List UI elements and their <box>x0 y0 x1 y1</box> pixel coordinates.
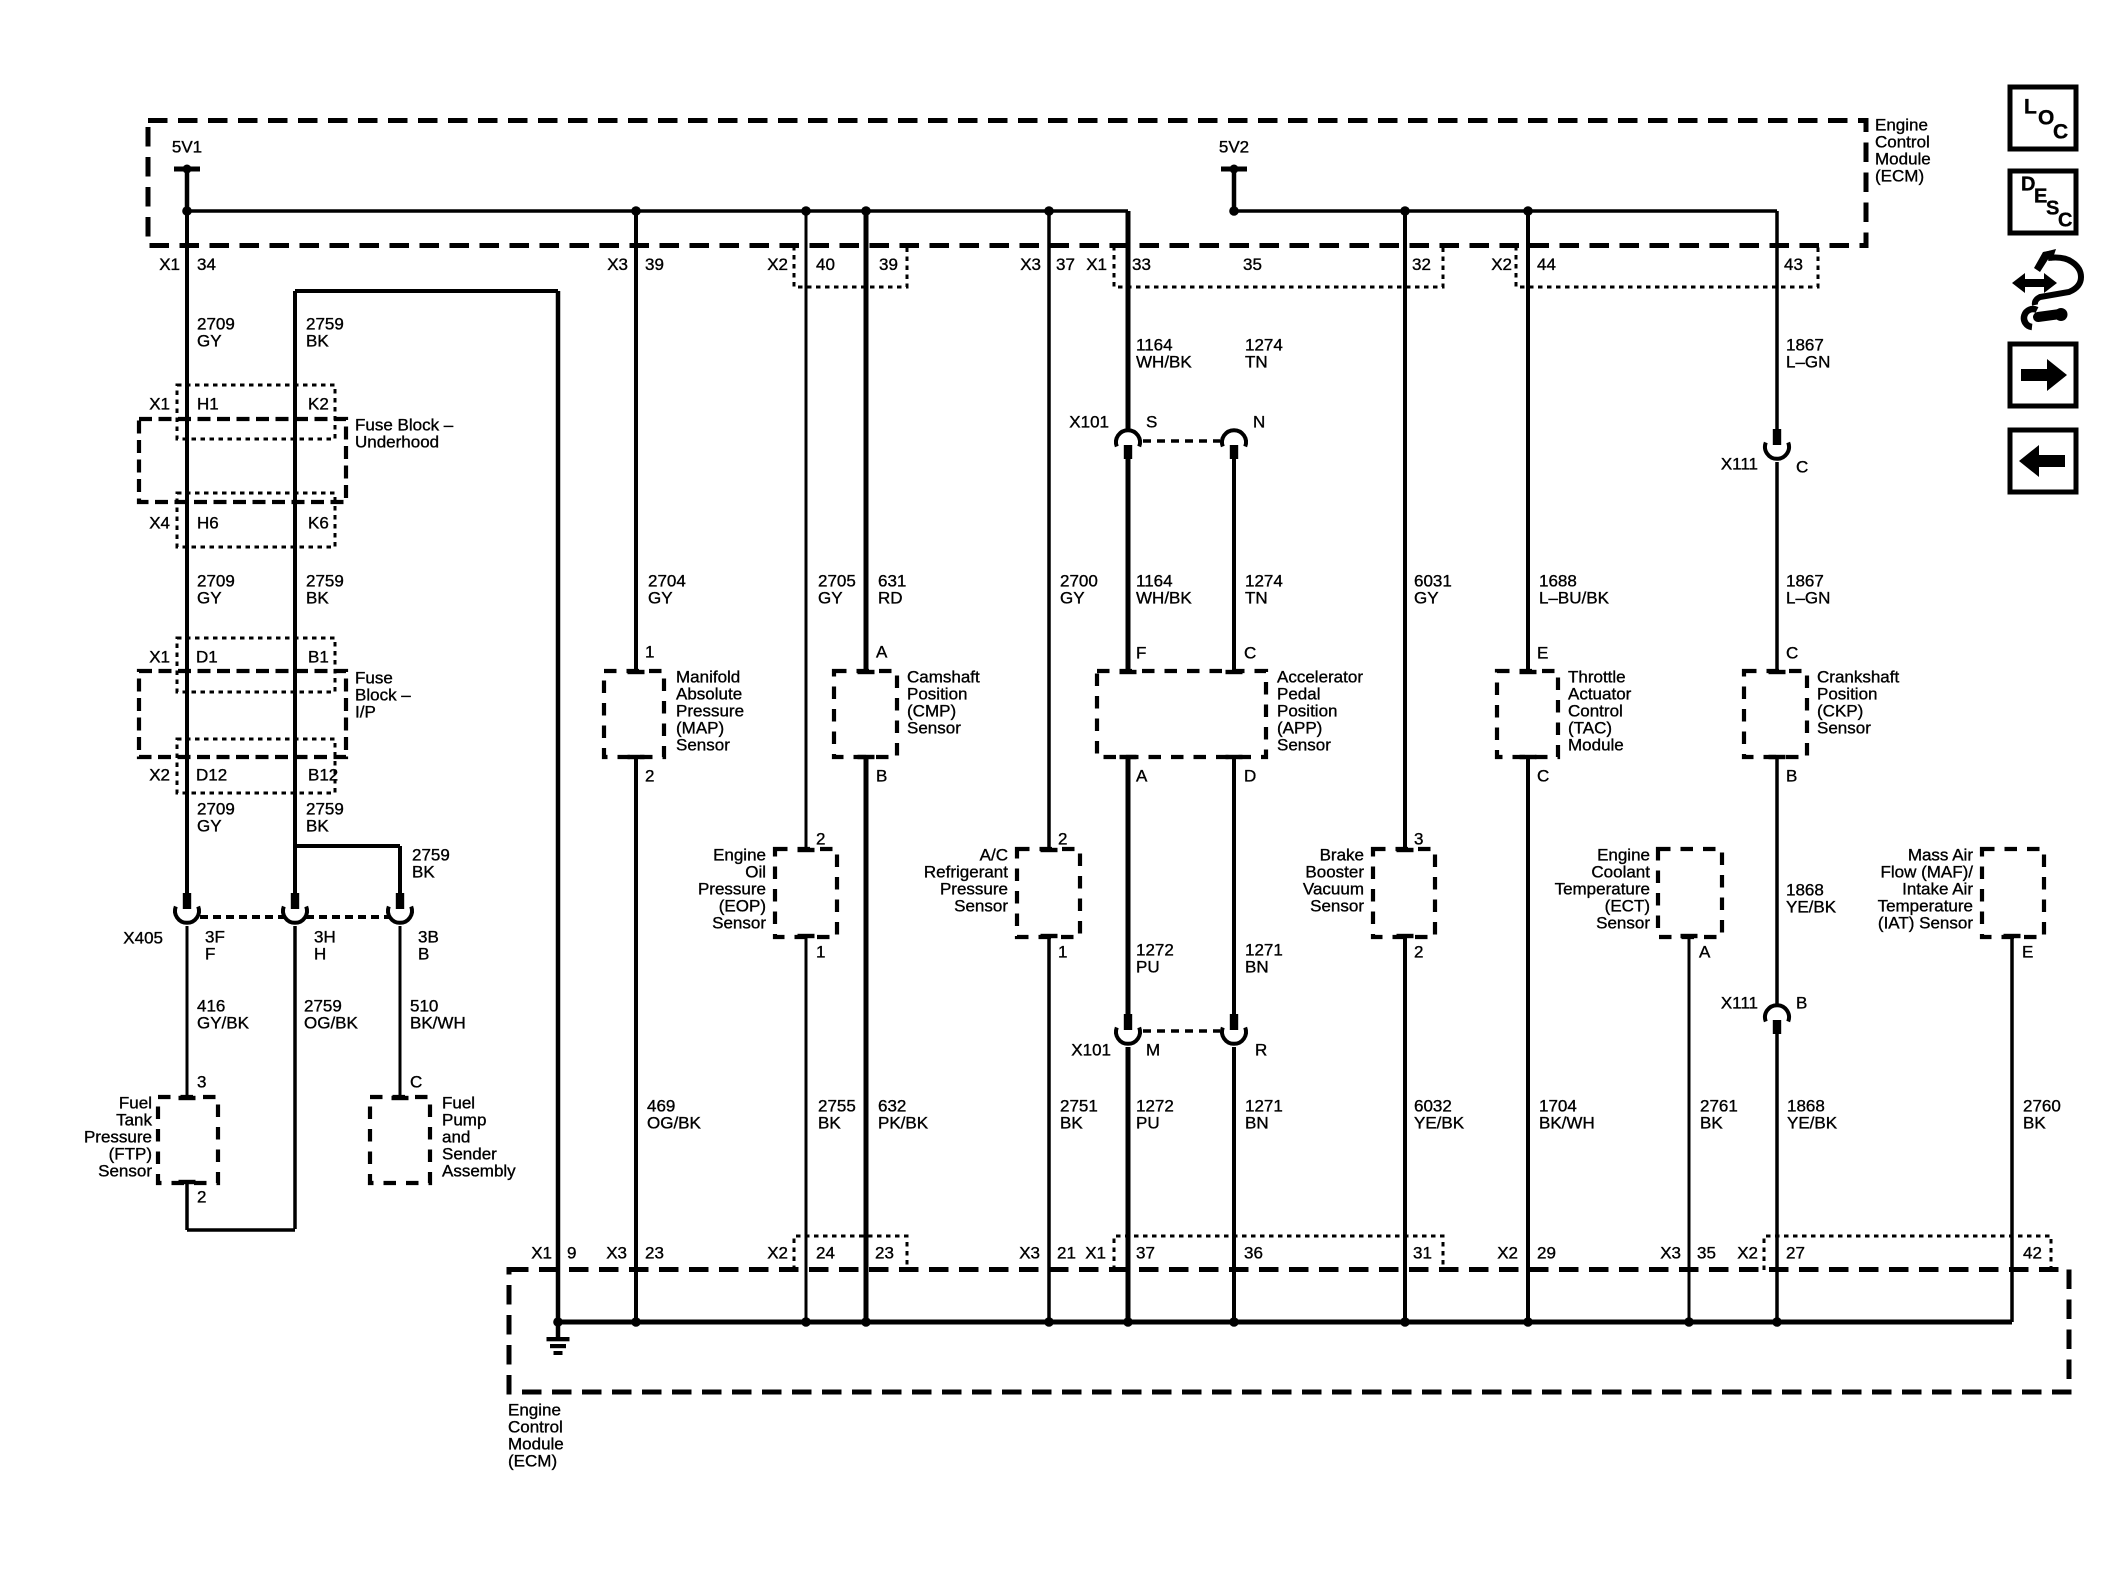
wire 2759 BK col x=295 <box>293 291 297 846</box>
svg-text:H6: H6 <box>197 514 219 533</box>
connector pin box X2 40/39 <box>794 246 907 287</box>
fuel tank pressure sensor box <box>158 1097 218 1183</box>
box entry tick at 636,672 <box>628 670 645 674</box>
wire 1274 TN lower <box>1232 459 1236 671</box>
wire 510 BK/WH <box>399 926 402 1097</box>
wire 1868 YE/BK upper <box>1775 757 1779 1005</box>
svg-text:Sensor: Sensor <box>907 719 961 738</box>
svg-text:D1: D1 <box>196 648 218 667</box>
svg-text:GY: GY <box>818 589 843 608</box>
svg-text:BK/WH: BK/WH <box>1539 1114 1595 1133</box>
wire 1867 L-GN upper <box>1775 211 1779 429</box>
svg-text:32: 32 <box>1412 255 1431 274</box>
ground symbol <box>556 1322 561 1339</box>
connector X405 pin H <box>291 893 299 909</box>
fuse block underhood connector X4 pins <box>177 493 335 547</box>
svg-text:X2: X2 <box>767 1244 788 1263</box>
LOC icon box <box>2010 87 2076 149</box>
junction ground bus x=1528 <box>1523 1317 1533 1327</box>
svg-text:X3: X3 <box>1020 255 1041 274</box>
junction 5V1 bus x=866 <box>861 206 871 216</box>
svg-text:Sensor: Sensor <box>676 736 730 755</box>
box entry tick at 806,936 <box>798 934 815 938</box>
svg-text:X3: X3 <box>607 255 628 274</box>
svg-text:29: 29 <box>1537 1244 1556 1263</box>
connector X405 link <box>200 915 284 919</box>
wire 2759 BK branch drop <box>398 846 402 893</box>
svg-text:36: 36 <box>1244 1244 1263 1263</box>
svg-text:27: 27 <box>1786 1244 1805 1263</box>
connector X405 pin F <box>183 893 191 909</box>
wire FTP return <box>185 1183 189 1230</box>
box entry tick at 187,1098 <box>179 1096 196 1100</box>
svg-text:F: F <box>1136 644 1146 663</box>
svg-text:39: 39 <box>645 255 664 274</box>
connector pin box X2 44/43 <box>1516 246 1818 287</box>
svg-text:X1: X1 <box>159 255 180 274</box>
camshaft position sensor box <box>834 671 897 757</box>
svg-text:B12: B12 <box>308 766 338 785</box>
wire 2760 BK <box>2010 937 2014 1322</box>
wire 6032 YE/BK <box>1403 937 1407 1322</box>
svg-text:(ECM): (ECM) <box>508 1452 557 1471</box>
svg-text:C: C <box>1786 644 1798 663</box>
svg-text:34: 34 <box>197 255 216 274</box>
box entry tick at 2012,936 <box>2004 934 2021 938</box>
connector X101 S-N link <box>1143 439 1220 443</box>
svg-text:2: 2 <box>645 767 654 786</box>
connector X111 pin B <box>1765 1005 1789 1021</box>
throttle actuator control module box <box>1497 671 1558 757</box>
manifold absolute pressure sensor box <box>604 671 664 757</box>
wire 2755 BK <box>805 937 808 1322</box>
wire 2751 BK <box>1047 937 1051 1322</box>
svg-text:C: C <box>2053 120 2068 143</box>
svg-text:X1: X1 <box>531 1244 552 1263</box>
wire 632 PK/BK <box>864 757 869 1322</box>
junction 5V1 bus x=636 <box>631 206 641 216</box>
svg-text:Sensor: Sensor <box>954 897 1008 916</box>
svg-text:44: 44 <box>1537 255 1556 274</box>
connector X111 pin C <box>1773 429 1781 445</box>
svg-text:TN: TN <box>1245 589 1268 608</box>
box entry tick at 806,850 <box>798 848 815 852</box>
wire 1704 BK/WH <box>1526 757 1530 1322</box>
svg-text:BK: BK <box>306 817 329 836</box>
svg-text:BK: BK <box>306 332 329 351</box>
svg-text:BK: BK <box>818 1114 841 1133</box>
svg-text:GY/BK: GY/BK <box>197 1014 250 1033</box>
wire 2759 BK top link <box>295 289 558 293</box>
svg-text:GY: GY <box>197 817 222 836</box>
junction ground bus x=866 <box>861 1317 871 1327</box>
svg-text:35: 35 <box>1697 1244 1716 1263</box>
svg-text:2: 2 <box>197 1188 206 1207</box>
connector X405 pin B <box>396 893 404 909</box>
wire 631 RD <box>864 211 869 671</box>
svg-text:(ECM): (ECM) <box>1875 167 1924 186</box>
fuse block underhood connector X1 pins <box>177 385 335 439</box>
fuse block I/P connector X1 pins <box>177 638 335 692</box>
svg-text:39: 39 <box>879 255 898 274</box>
box entry tick at 1049,850 <box>1041 848 1058 852</box>
svg-text:Sensor: Sensor <box>1596 914 1650 933</box>
svg-text:37: 37 <box>1136 1244 1155 1263</box>
wire 1272 PU lower <box>1126 1047 1131 1322</box>
wire 2705 GY <box>805 211 808 849</box>
svg-text:Sensor: Sensor <box>1310 897 1364 916</box>
svg-text:X111: X111 <box>1721 455 1758 474</box>
connector X101 pin S <box>1116 430 1140 446</box>
box entry tick at 636,757 <box>628 755 645 759</box>
svg-text:GY: GY <box>197 332 222 351</box>
ECM bottom module box <box>509 1270 2069 1393</box>
svg-text:BN: BN <box>1245 1114 1269 1133</box>
junction ground bus x=1234 <box>1229 1317 1239 1327</box>
svg-text:2: 2 <box>1058 830 1067 849</box>
svg-text:M: M <box>1146 1041 1160 1060</box>
svg-text:X2: X2 <box>1491 255 1512 274</box>
junction ground bus x=806 <box>801 1317 811 1327</box>
box entry tick at 866,672 <box>858 670 875 674</box>
svg-text:L–GN: L–GN <box>1786 353 1830 372</box>
connector pin box X2 27/42 <box>1764 1236 2051 1270</box>
svg-text:X2: X2 <box>767 255 788 274</box>
junction 5V2 bus x=1234 <box>1229 206 1239 216</box>
5V1 bus wire <box>187 209 1128 213</box>
junction ground bus x=1405 <box>1400 1317 1410 1327</box>
box entry tick at 1777,757 <box>1769 755 1786 759</box>
svg-text:BK: BK <box>306 589 329 608</box>
fuse block underhood box <box>139 419 346 502</box>
svg-text:A: A <box>1136 767 1148 786</box>
junction 5V1 bus x=187 <box>182 206 192 216</box>
svg-text:X405: X405 <box>123 929 163 948</box>
box entry tick at 1405,936 <box>1397 934 1414 938</box>
brake booster vacuum sensor box <box>1373 849 1435 937</box>
svg-text:H: H <box>314 945 326 964</box>
svg-text:PU: PU <box>1136 1114 1160 1133</box>
box entry tick at 866,757 <box>858 755 875 759</box>
svg-text:X1: X1 <box>1086 255 1107 274</box>
box entry tick at 1528,672 <box>1520 670 1537 674</box>
wire 1272 PU upper <box>1126 757 1131 1014</box>
svg-text:5V2: 5V2 <box>1219 138 1249 157</box>
svg-text:Sensor: Sensor <box>712 914 766 933</box>
svg-text:X1: X1 <box>149 648 170 667</box>
box entry tick at 1405,850 <box>1397 848 1414 852</box>
junction ground bus x=636 <box>631 1317 641 1327</box>
svg-text:1: 1 <box>816 943 825 962</box>
box entry tick at 1528,757 <box>1520 755 1537 759</box>
box entry tick at 400,1098 <box>392 1096 409 1100</box>
svg-text:X2: X2 <box>1737 1244 1758 1263</box>
svg-text:42: 42 <box>2023 1244 2042 1263</box>
wire 2709 GY col x=187 <box>185 169 189 893</box>
svg-text:X1: X1 <box>1085 1244 1106 1263</box>
a/c refrigerant pressure sensor box <box>1017 849 1080 937</box>
svg-text:Sensor: Sensor <box>1817 719 1871 738</box>
wire 469 OG/BK <box>634 757 638 1322</box>
svg-text:X101: X101 <box>1071 1041 1111 1060</box>
connector X101 pin M <box>1124 1014 1132 1030</box>
svg-text:PK/BK: PK/BK <box>878 1114 929 1133</box>
junction 5V1 bus x=806 <box>801 206 811 216</box>
svg-text:E: E <box>1537 644 1548 663</box>
svg-text:X101: X101 <box>1069 413 1109 432</box>
accelerator pedal position sensor box <box>1097 671 1266 757</box>
svg-text:B1: B1 <box>308 648 329 667</box>
svg-text:23: 23 <box>875 1244 894 1263</box>
box entry tick at 1128,757 <box>1120 755 1137 759</box>
svg-text:D12: D12 <box>196 766 227 785</box>
wire 1868 YE/BK lower <box>1775 1034 1779 1322</box>
svg-text:3: 3 <box>197 1073 206 1092</box>
wire 2759 BK branch horizontal <box>295 844 400 848</box>
svg-text:23: 23 <box>645 1244 664 1263</box>
svg-text:BK: BK <box>1060 1114 1083 1133</box>
svg-text:35: 35 <box>1243 255 1262 274</box>
box entry tick at 1128,672 <box>1120 670 1137 674</box>
svg-text:GY: GY <box>1414 589 1439 608</box>
ECM top module box <box>148 121 1866 246</box>
svg-text:X3: X3 <box>1660 1244 1681 1263</box>
svg-text:43: 43 <box>1784 255 1803 274</box>
svg-text:Module: Module <box>1568 736 1624 755</box>
engine oil pressure sensor box <box>775 849 837 937</box>
connector X101 pin N <box>1222 430 1246 446</box>
svg-text:B: B <box>876 767 887 786</box>
box entry tick at 1049,936 <box>1041 934 1058 938</box>
svg-text:A: A <box>876 643 888 662</box>
box entry tick at 1234,672 <box>1226 670 1243 674</box>
wire 1271 BN upper <box>1232 757 1236 1014</box>
wire 1164 WH/BK lower <box>1126 459 1131 671</box>
junction ground bus x=1128 <box>1123 1317 1133 1327</box>
wire 2759 BK to X405 H <box>293 846 297 893</box>
svg-text:BN: BN <box>1245 958 1269 977</box>
junction 5V2 bus x=1528 <box>1523 206 1533 216</box>
connector pin box X2 24/23 <box>794 1236 907 1270</box>
svg-text:3: 3 <box>1414 830 1423 849</box>
svg-text:X2: X2 <box>1497 1244 1518 1263</box>
svg-text:X1: X1 <box>149 395 170 414</box>
svg-text:A: A <box>1699 943 1711 962</box>
svg-text:GY: GY <box>197 589 222 608</box>
wire 2759 OG/BK <box>293 926 297 1229</box>
ground bus wire <box>558 1320 2012 1325</box>
back arrow icon box <box>2010 430 2076 492</box>
junction 5V1 bus x=1049 <box>1044 206 1054 216</box>
box entry tick at 1777,672 <box>1769 670 1786 674</box>
svg-text:37: 37 <box>1056 255 1075 274</box>
connector X101 pin R <box>1230 1014 1238 1030</box>
svg-text:1: 1 <box>645 643 654 662</box>
svg-text:BK/WH: BK/WH <box>410 1014 466 1033</box>
svg-text:L: L <box>2024 95 2037 118</box>
svg-text:Sensor: Sensor <box>98 1162 152 1181</box>
svg-text:Underhood: Underhood <box>355 433 439 452</box>
svg-text:K6: K6 <box>308 514 329 533</box>
svg-text:B: B <box>1786 767 1797 786</box>
wire 416 GY/BK <box>186 926 189 1097</box>
svg-text:1: 1 <box>1058 943 1067 962</box>
svg-text:E: E <box>2022 943 2033 962</box>
svg-text:X4: X4 <box>149 514 170 533</box>
svg-text:GY: GY <box>1060 589 1085 608</box>
svg-text:YE/BK: YE/BK <box>1787 1114 1838 1133</box>
svg-text:F: F <box>205 945 215 964</box>
svg-text:33: 33 <box>1132 255 1151 274</box>
svg-text:WH/BK: WH/BK <box>1136 589 1192 608</box>
svg-text:X2: X2 <box>149 766 170 785</box>
mass air flow / IAT sensor box <box>1982 849 2044 937</box>
svg-text:B: B <box>418 945 429 964</box>
svg-text:OG/BK: OG/BK <box>304 1014 359 1033</box>
junction ground bus x=1049 <box>1044 1317 1054 1327</box>
fuel pump and sender assembly box <box>370 1097 430 1183</box>
svg-text:K2: K2 <box>308 395 329 414</box>
svg-text:2: 2 <box>1414 943 1423 962</box>
DESC icon box <box>2010 171 2076 233</box>
svg-text:24: 24 <box>816 1244 835 1263</box>
fuse block I/P box <box>139 671 346 757</box>
svg-text:X111: X111 <box>1721 994 1758 1013</box>
junction ground bus x=1777 <box>1772 1317 1782 1327</box>
svg-text:C: C <box>1537 767 1549 786</box>
svg-text:Sensor: Sensor <box>1277 736 1331 755</box>
wire 2761 BK <box>1688 937 1691 1322</box>
svg-text:OG/BK: OG/BK <box>647 1114 702 1133</box>
wire 2704 GY <box>634 211 638 671</box>
box entry tick at 1234,757 <box>1226 755 1243 759</box>
svg-text:RD: RD <box>878 589 903 608</box>
svg-text:2: 2 <box>816 830 825 849</box>
svg-text:YE/BK: YE/BK <box>1786 898 1837 917</box>
svg-text:C: C <box>2058 210 2072 232</box>
svg-text:5V1: 5V1 <box>172 138 202 157</box>
svg-text:9: 9 <box>567 1244 576 1263</box>
svg-text:C: C <box>1244 644 1256 663</box>
svg-text:X3: X3 <box>606 1244 627 1263</box>
wire 1271 BN lower <box>1232 1047 1236 1322</box>
svg-text:31: 31 <box>1413 1244 1432 1263</box>
svg-text:(IAT) Sensor: (IAT) Sensor <box>1878 914 1973 933</box>
box entry tick at 1689,936 <box>1681 934 1698 938</box>
fuse block I/P connector X2 pins <box>177 739 335 793</box>
svg-text:C: C <box>1796 458 1808 477</box>
svg-text:L–GN: L–GN <box>1786 589 1830 608</box>
harness navigation icon <box>2012 273 2057 293</box>
svg-text:40: 40 <box>816 255 835 274</box>
svg-text:H1: H1 <box>197 395 219 414</box>
wire 1867 L-GN lower <box>1775 462 1779 671</box>
junction ground bus x=558 <box>553 1317 563 1327</box>
svg-text:21: 21 <box>1057 1244 1076 1263</box>
svg-text:B: B <box>1796 994 1807 1013</box>
svg-text:I/P: I/P <box>355 703 376 722</box>
svg-text:C: C <box>410 1073 422 1092</box>
connector pin box X1 33/35/32 <box>1114 246 1443 287</box>
junction ground bus x=1689 <box>1684 1317 1694 1327</box>
svg-text:BK: BK <box>412 863 435 882</box>
wire 2759 BK ground return <box>556 291 561 1322</box>
svg-text:BK: BK <box>1700 1114 1723 1133</box>
svg-text:GY: GY <box>648 589 673 608</box>
box entry tick at 187,1182 <box>179 1180 196 1184</box>
svg-text:X3: X3 <box>1019 1244 1040 1263</box>
forward arrow icon box <box>2010 344 2076 406</box>
crankshaft position sensor box <box>1744 671 1807 757</box>
connector X101 M-R link <box>1143 1029 1220 1033</box>
svg-text:WH/BK: WH/BK <box>1136 353 1192 372</box>
svg-text:S: S <box>1146 413 1157 432</box>
engine coolant temperature sensor box <box>1658 849 1722 937</box>
wire 6031 GY <box>1403 211 1407 849</box>
wire 1164 WH/BK upper <box>1126 211 1131 430</box>
junction 5V2 bus x=1405 <box>1400 206 1410 216</box>
svg-text:BK: BK <box>2023 1114 2046 1133</box>
svg-text:N: N <box>1253 413 1265 432</box>
svg-text:Assembly: Assembly <box>442 1162 516 1181</box>
svg-text:L–BU/BK: L–BU/BK <box>1539 589 1610 608</box>
svg-text:PU: PU <box>1136 958 1160 977</box>
svg-text:D: D <box>1244 767 1256 786</box>
svg-text:YE/BK: YE/BK <box>1414 1114 1465 1133</box>
svg-text:TN: TN <box>1245 353 1268 372</box>
wire 2700 GY <box>1047 211 1051 849</box>
svg-text:O: O <box>2038 106 2054 129</box>
wire 1688 L-BU/BK <box>1526 211 1530 671</box>
svg-text:R: R <box>1255 1041 1267 1060</box>
5V2 bus wire <box>1234 209 1777 213</box>
connector pin box X1 37/36/31 <box>1114 1236 1443 1270</box>
